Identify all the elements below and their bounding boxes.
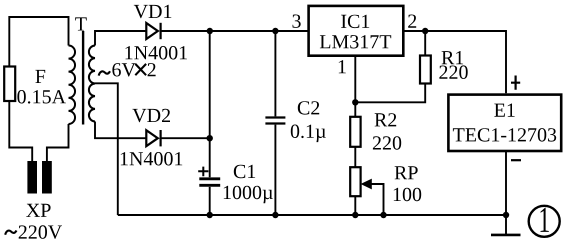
wire primary loop top: fuse top to transformer primary: [9, 17, 68, 67]
wire ground stub below rail: [505, 215, 507, 234]
wire IC1 pin 1 down to node: [354, 57, 356, 117]
label R1: [442, 51, 464, 64]
label R2: [375, 113, 397, 126]
plus sign at E1: [511, 76, 520, 90]
pin label 1: [339, 60, 346, 73]
resistor R1: [420, 56, 431, 84]
label 1N4001 (VD2): [121, 152, 182, 166]
wire secondary center tap to bottom rail: [95, 83, 118, 215]
junction dot C2 bottom on rail: [272, 212, 278, 218]
wire secondary top terminal to VD1 anode: [95, 31, 146, 46]
circled-1 digit: [541, 208, 549, 232]
label VD2: [132, 109, 170, 123]
junction dot R1 top: [422, 28, 428, 34]
pin label 2: [408, 15, 416, 28]
label RP: [395, 166, 418, 179]
label VD1: [134, 5, 172, 18]
wire RP wiper to bottom rail: [370, 184, 384, 215]
junction dot wiper on rail: [380, 212, 386, 218]
wire VD1 cathode to IC1 pin 3: [161, 30, 308, 32]
wire C2 column (top rail to C2, C2 to bottom rail): [274, 31, 276, 215]
wire transformer primary bottom to XP right prong: [47, 124, 69, 161]
tilde of ~6V×2: [99, 71, 110, 75]
label 100: [394, 188, 421, 202]
junction dot VD2 cathode at C1 column: [207, 135, 213, 141]
wire C1 column (top rail to C1, C1 to bottom rail): [209, 31, 211, 215]
label TEC1-12703: [453, 128, 556, 142]
label C1: [234, 165, 255, 178]
junction dot node VD1-C2-IC1 rail: [207, 28, 213, 34]
label 0.15A: [17, 90, 66, 104]
transformer T primary winding: [69, 46, 76, 124]
label 220V (of ~220V): [19, 225, 62, 239]
diode VD2: [146, 130, 160, 146]
plug XP left prong: [27, 161, 37, 194]
transformer T secondary winding: [89, 46, 95, 122]
transformer T core: [82, 31, 84, 125]
ground bar: [491, 234, 521, 237]
junction dot E1 minus on rail: [503, 212, 509, 218]
wire VD2 cathode to node at C1 column: [161, 137, 210, 139]
diode VD1: [146, 23, 160, 39]
label 220 (R2): [373, 136, 401, 150]
capacitor C1 plates: [199, 179, 220, 186]
wire bottom rail: [118, 214, 506, 216]
times sign of ~6V×2: [135, 64, 146, 75]
wire IC1 pin 2 to E1 plus terminal: [403, 31, 506, 93]
junction dot RP bottom on rail: [352, 212, 358, 218]
label T: [75, 17, 87, 30]
junction dot C1 bottom on rail: [207, 212, 213, 218]
label 2 (of ~6V×2): [148, 63, 156, 76]
capacitor C2 plates: [265, 118, 285, 124]
capacitor C1 polarity plus: [198, 167, 208, 177]
wire R2 to RP: [354, 147, 356, 167]
label 1000u: [224, 186, 273, 204]
wire R1 branch: [357, 31, 425, 102]
label 6V (of ~6V×2): [112, 63, 135, 77]
wire fuse bottom to XP left prong: [9, 101, 32, 161]
potentiometer RP body: [350, 167, 360, 196]
thermoelectric module E1 box: [448, 95, 561, 151]
op-amp/regulator IC1 LM317T box: [309, 6, 404, 56]
junction dot IC1 pin1 / R1 / R2 node: [352, 99, 358, 105]
label 1N4001 (VD1): [126, 46, 187, 60]
minus sign at E1: [511, 159, 521, 161]
label 220 (R1): [439, 65, 467, 79]
circled figure number ring: [529, 206, 560, 237]
label LM317T: [320, 35, 391, 48]
label 0.1u: [291, 125, 326, 143]
junction dot C2 top: [272, 28, 278, 34]
plug XP right prong: [42, 161, 52, 194]
wire E1 minus terminal to bottom rail: [505, 152, 507, 215]
RP wiper arrowhead: [361, 179, 372, 190]
label C2: [298, 101, 319, 114]
label E1: [494, 104, 514, 117]
label IC1: [341, 15, 369, 28]
wire secondary bottom terminal to VD2 anode: [95, 122, 146, 139]
tilde of ~220V: [5, 231, 16, 235]
resistor R2: [350, 117, 360, 147]
wire RP bottom terminal to bottom rail: [354, 196, 356, 215]
label XP: [26, 204, 50, 217]
label F: [35, 70, 45, 83]
pin label 3: [293, 15, 301, 28]
fuse F 0.15A body: [4, 67, 15, 102]
